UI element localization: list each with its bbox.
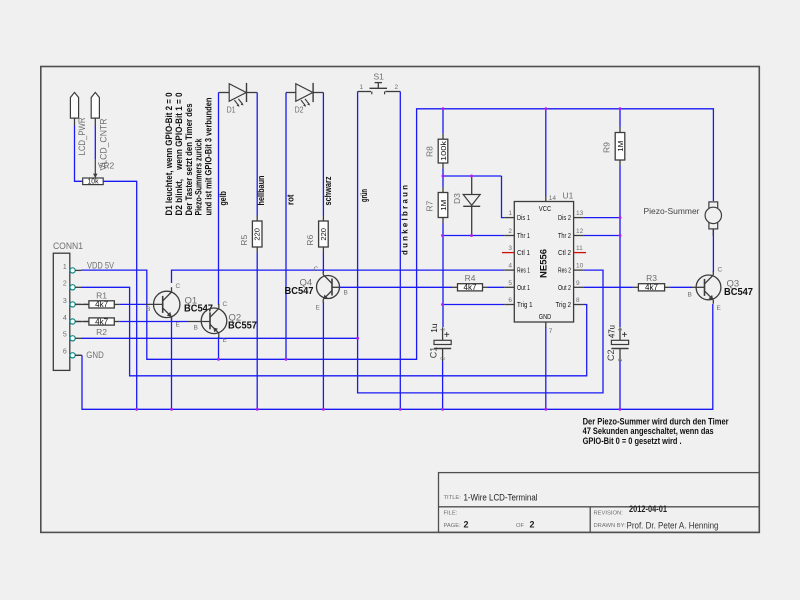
svg-text:R7: R7 (425, 200, 435, 211)
svg-text:100k: 100k (441, 140, 448, 161)
svg-text:D1 leuchtet, wenn GPIO-Bit 2 =: D1 leuchtet, wenn GPIO-Bit 2 = 0 (164, 92, 174, 215)
U1 left pin 2 Thr 1 (504, 228, 530, 240)
U1 right pin 13 Dis 2 (558, 210, 584, 222)
svg-text:Out 1: Out 1 (517, 285, 530, 292)
CONN1 pin 5 (63, 332, 81, 341)
svg-text:2: 2 (63, 281, 67, 288)
svg-text:1-Wire LCD-Terminal: 1-Wire LCD-Terminal (464, 493, 538, 503)
wire dunkelbraun S1 pin2 to GND bus (399, 92, 401, 410)
svg-text:7: 7 (549, 328, 553, 335)
svg-text:E: E (176, 322, 181, 329)
wire Q4 emitter to GND bus (322, 302, 324, 409)
wire R3 to Q3 base (670, 286, 692, 288)
U1 right pin 10 Res 2 (558, 263, 584, 275)
svg-text:LCD_PWR: LCD_PWR (77, 117, 88, 155)
supply pin VLCD_CNTR (91, 92, 99, 125)
junction Thr1 left (441, 234, 444, 237)
svg-text:8: 8 (576, 297, 580, 304)
svg-text:R2: R2 (96, 327, 107, 337)
svg-text:R6: R6 (305, 235, 315, 246)
U1 left pin 5 Out 1 (504, 280, 530, 292)
svg-text:C: C (314, 266, 319, 273)
svg-text:1: 1 (508, 210, 512, 217)
svg-text:2: 2 (395, 84, 399, 91)
junction R8-R7 row at D3 (470, 175, 473, 178)
svg-text:2: 2 (530, 520, 535, 530)
svg-text:TITLE:: TITLE: (444, 495, 462, 501)
resistor R3 4k7 (633, 283, 670, 292)
resistor R7 1M (438, 187, 448, 223)
svg-text:GND: GND (86, 350, 104, 361)
transistor Q3 BC547 (696, 271, 721, 304)
wire Q2 emitter to VDD rail (218, 337, 220, 359)
svg-text:B: B (688, 292, 692, 299)
svg-text:rot: rot (285, 195, 295, 206)
wire CONN1 pin3 to R1 (75, 303, 89, 305)
connector CONN1 body (53, 253, 70, 370)
svg-text:R9: R9 (602, 142, 612, 153)
svg-text:11: 11 (576, 245, 583, 252)
wire R9 bottom to Dis2 Thr2 and C2 (619, 166, 621, 328)
svg-text:FILE:: FILE: (444, 511, 458, 517)
svg-text:R5: R5 (239, 235, 249, 246)
svg-text:3: 3 (63, 298, 67, 305)
junction VDD rail at Q2 emitter (217, 358, 220, 361)
wire Dis1 from junction (502, 176, 505, 218)
svg-text:BC547: BC547 (285, 286, 314, 297)
svg-text:Dis 1: Dis 1 (517, 215, 530, 222)
svg-text:5: 5 (508, 280, 512, 287)
svg-text:Trig 2: Trig 2 (556, 302, 572, 309)
svg-text:PAGE:: PAGE: (444, 523, 462, 529)
wire CONN1 pin2 to NE556 Trig2 pin8 (81, 287, 587, 376)
svg-text:C: C (176, 283, 181, 290)
svg-text:und ist mit GPIO-Bit 3 verbund: und ist mit GPIO-Bit 3 verbunden (203, 98, 213, 216)
svg-text:Res 1: Res 1 (517, 268, 530, 275)
wire gelb D1 anode to Q2 collector (219, 92, 230, 94)
resistor R8 100k (438, 134, 448, 169)
drawing frame (41, 67, 760, 533)
wire R1 to Q1 base (120, 303, 145, 305)
wire R8 top (442, 109, 444, 134)
wire D3 cathode to Thr1 (471, 206, 473, 235)
svg-text:1: 1 (441, 328, 447, 331)
svg-text:REVISION:: REVISION: (594, 511, 624, 517)
junction GND bus at VR2 (135, 408, 138, 411)
potentiometer VR2 (83, 160, 104, 186)
CONN1 pin 6 (63, 349, 81, 358)
wire CONN1 pin5 / R2 net to gruen (81, 337, 358, 339)
CONN1 pin 2 (63, 281, 81, 290)
note text block (rotated) about D1 D2 Taster (164, 92, 214, 215)
junction R8-R7 row left (442, 175, 445, 178)
junction gruen at pin5 wire (356, 337, 359, 340)
svg-text:1: 1 (63, 264, 67, 271)
U1 right pin 11 Ctl 2 (558, 245, 586, 257)
junction Dis2 at R9 (619, 216, 622, 219)
resistor R1 4k7 (83, 300, 119, 309)
resistor R4 4k7 (452, 283, 488, 292)
diode D3 (463, 195, 480, 207)
capacitor C2 47u (611, 327, 628, 361)
wire gruen S1 pin1 down to Res2 pin10 (358, 92, 603, 393)
resistor R2 4k7 (83, 317, 119, 326)
svg-text:VR2: VR2 (98, 161, 115, 171)
svg-text:1M: 1M (618, 141, 625, 152)
wire R2 to Q2 base (120, 321, 188, 323)
wire rot D2 anode to VDD rail (286, 92, 296, 94)
junction top rail at VCC pin14 (544, 107, 547, 110)
U1 right pin 8 Trig 2 (556, 297, 584, 309)
svg-text:Res 2: Res 2 (558, 268, 571, 275)
svg-text:U1: U1 (563, 190, 574, 200)
junction top rail at R8 (442, 107, 445, 110)
U1 left pin 3 Ctl 1 (502, 245, 530, 257)
svg-text:Out 2: Out 2 (558, 285, 571, 292)
wire schwarz D2 cathode through R6 to Q4 collector (313, 92, 323, 94)
svg-text:DRAWN BY:: DRAWN BY: (594, 523, 627, 529)
wire Thr2 (584, 235, 620, 237)
svg-text:D3: D3 (452, 193, 462, 204)
svg-text:R8: R8 (425, 146, 435, 157)
junction GND bus at C2 (619, 408, 622, 411)
svg-text:D1: D1 (227, 106, 236, 115)
svg-text:Ctl 1: Ctl 1 (517, 250, 530, 257)
svg-text:1M: 1M (441, 200, 448, 211)
junction Thr2 at R9 (619, 234, 622, 237)
svg-text:10k: 10k (88, 179, 99, 186)
junction GND bus at Q1 emitter (170, 408, 173, 411)
svg-text:2: 2 (508, 228, 512, 235)
svg-text:Dis 2: Dis 2 (558, 215, 571, 222)
svg-text:schwarz: schwarz (323, 176, 333, 205)
wire Out2 to R3 (584, 286, 633, 288)
svg-text:5: 5 (63, 332, 67, 339)
svg-text:14: 14 (549, 195, 557, 202)
svg-text:4: 4 (63, 315, 67, 322)
wire hellbaun D1 cathode through R5 to GND bus (246, 92, 257, 94)
svg-text:S1: S1 (374, 72, 385, 82)
svg-text:Thr 1: Thr 1 (517, 233, 530, 240)
wire VR2 right to GND bus (103, 181, 137, 409)
svg-text:12: 12 (576, 228, 584, 235)
svg-text:GND: GND (539, 312, 552, 321)
U1 left pin 4 Res 1 (504, 263, 530, 275)
svg-text:D2 blinkt, wenn GPIO-Bit 1: D2 blinkt, wenn GPIO-Bit 1 = 0 (174, 92, 184, 215)
svg-text:BC547: BC547 (724, 287, 753, 298)
CONN1 pin 3 (63, 298, 81, 307)
svg-text:dunkelbraun: dunkelbraun (400, 185, 409, 255)
wire CONN1 pin4 to R2 (75, 321, 89, 323)
svg-text:E: E (717, 305, 722, 312)
svg-text:9: 9 (576, 280, 580, 287)
svg-text:4k7: 4k7 (95, 300, 109, 309)
svg-text:4: 4 (508, 263, 512, 270)
svg-text:Trig 1: Trig 1 (517, 302, 533, 309)
svg-text:E: E (223, 337, 228, 344)
junction Thr1 at D3 (470, 234, 473, 237)
title block box (439, 473, 760, 533)
svg-text:B: B (194, 325, 198, 332)
U1 right pin 12 Thr 2 (558, 228, 584, 240)
junction GND bus at dunkelbraun (399, 408, 402, 411)
junction top rail at R9 (619, 107, 622, 110)
svg-text:OF: OF (516, 523, 525, 529)
wire R7 bottom to Thr1 and C1 (442, 223, 444, 327)
svg-text:3: 3 (508, 245, 512, 252)
wire Q1 collector to NE556 Res1 pin4 (172, 270, 505, 283)
svg-text:4k7: 4k7 (645, 283, 659, 292)
svg-text:C: C (718, 267, 723, 274)
resistor R9 1M (615, 127, 625, 166)
svg-text:VCC: VCC (539, 204, 552, 213)
wire R8 bottom junction row (442, 169, 444, 188)
svg-text:Thr 2: Thr 2 (558, 233, 571, 240)
CONN1 pin 4 (63, 315, 81, 324)
junction GND bus at C1 (441, 408, 444, 411)
resistor R5 220 (252, 216, 262, 253)
svg-text:2: 2 (441, 357, 447, 360)
svg-text:1: 1 (360, 84, 364, 91)
junction GND bus at NE556 pin7 (544, 408, 547, 411)
transistor Q1 BC547 (154, 287, 180, 321)
svg-text:BC557: BC557 (228, 321, 257, 332)
svg-text:R4: R4 (465, 273, 476, 283)
U1 pin 14 stub (545, 196, 547, 202)
svg-text:gelb: gelb (218, 191, 228, 206)
svg-text:2012-04-01: 2012-04-01 (629, 504, 667, 514)
wire Q1 emitter to GND bus (171, 317, 173, 409)
junction Trig1 at C1 (441, 303, 444, 306)
wire R4 to Q4 base (340, 286, 452, 288)
LED D2 (296, 83, 313, 107)
svg-text:Der Taster setzt den Timer des: Der Taster setzt den Timer des (184, 103, 194, 215)
op-amp timer U1 NE556 body (514, 202, 573, 323)
svg-text:Prof. Dr. Peter A. Henning: Prof. Dr. Peter A. Henning (627, 521, 719, 532)
wire Dis2 (584, 217, 620, 219)
wire D3 anode (471, 176, 473, 195)
transistor Q2 BC557 (201, 304, 227, 338)
svg-text:4k7: 4k7 (464, 283, 478, 292)
svg-text:R1: R1 (96, 290, 107, 300)
svg-text:B: B (146, 306, 150, 313)
wire NE556 GND pin7 to GND bus (545, 327, 547, 409)
svg-text:Der Piezo-Summer wird durch de: Der Piezo-Summer wird durch den Timer (583, 417, 729, 427)
wire Out1 to R4 (488, 286, 504, 288)
resistor R6 220 (319, 216, 329, 253)
svg-text:47u: 47u (606, 325, 616, 338)
U1 left pin 1 Dis 1 (504, 210, 530, 222)
wire VLCD_CNTR wiper (94, 126, 96, 160)
svg-text:B: B (344, 290, 348, 297)
wire C2 bottom to GND bus (619, 361, 621, 409)
CONN1 pin 1 (63, 264, 81, 273)
svg-text:grün: grün (359, 189, 369, 202)
wire CONN1 pin6 to GND bus (75, 354, 82, 356)
svg-text:4k7: 4k7 (95, 317, 109, 326)
svg-text:2: 2 (618, 358, 624, 361)
LED D1 (229, 83, 246, 107)
wire Thr1 (443, 235, 505, 237)
svg-text:220: 220 (321, 228, 328, 241)
wire LCD_PWR to VR2 left (75, 126, 83, 182)
svg-text:E: E (316, 305, 321, 312)
svg-text:1: 1 (618, 328, 624, 331)
note text block about Piezo-Summer timer (583, 417, 729, 446)
supply pin LCD_PWR (70, 92, 78, 125)
svg-text:6: 6 (63, 349, 67, 356)
capacitor C1 1u (434, 327, 451, 361)
svg-text:2: 2 (464, 520, 469, 530)
piezo buzzer (705, 202, 721, 236)
svg-text:C2: C2 (606, 349, 616, 361)
svg-text:D2: D2 (295, 106, 304, 115)
svg-text:R3: R3 (646, 273, 657, 283)
wire C1 bottom to GND bus (442, 361, 444, 409)
svg-text:CONN1: CONN1 (53, 241, 83, 251)
wire VDD 5V rail from CONN1 pin1 to top rail (81, 109, 713, 359)
svg-text:C: C (223, 301, 228, 308)
U1 left pin 6 Trig 1 (504, 297, 532, 309)
svg-text:10: 10 (576, 263, 584, 270)
svg-text:13: 13 (576, 210, 584, 217)
svg-text:Piezo-Summers zurück: Piezo-Summers zurück (193, 138, 203, 215)
svg-text:Ctl 2: Ctl 2 (558, 250, 571, 257)
svg-text:Piezo-Summer: Piezo-Summer (644, 206, 700, 216)
transistor Q4 BC547 (317, 272, 340, 303)
svg-text:6: 6 (508, 297, 512, 304)
svg-text:GPIO-Bit 0 = 0 gesetzt wird .: GPIO-Bit 0 = 0 gesetzt wird . (583, 436, 682, 446)
junction GND bus at Q4 emitter (322, 408, 325, 411)
U1 right pin 9 Out 2 (558, 280, 584, 292)
switch S1 (358, 83, 401, 95)
svg-text:C1: C1 (428, 347, 438, 359)
wire R9 top (619, 109, 621, 127)
junction GND bus at hellbaun (256, 408, 259, 411)
svg-text:220: 220 (255, 228, 262, 241)
svg-text:1u: 1u (429, 323, 439, 333)
svg-text:47 Sekunden angeschaltet, wenn: 47 Sekunden angeschaltet, wenn das (583, 426, 714, 436)
wire piezo to Q3 collector (712, 229, 714, 272)
wire NE556 VCC pin14 (545, 109, 547, 196)
svg-text:NE556: NE556 (539, 249, 550, 278)
junction VDD rail at rot (285, 358, 288, 361)
U1 pin 7 stub (545, 322, 547, 328)
wire Trig1 (443, 304, 505, 306)
